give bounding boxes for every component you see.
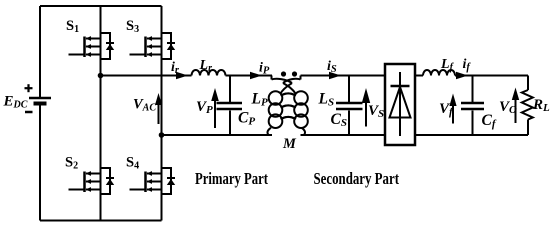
wire bottom rail of bridge — [40, 220, 162, 222]
wire rectifier bottom to load — [415, 134, 528, 136]
wire transformer secondary top to rectifier — [301, 75, 386, 77]
wire Lf to output node — [455, 75, 528, 77]
svg-text:S3: S3 — [126, 18, 139, 35]
svg-text:VS: VS — [368, 103, 384, 120]
wire rectifier to Lf — [415, 75, 423, 77]
transformer secondary winding LS — [283, 76, 308, 136]
voltage arrow VS — [362, 88, 370, 127]
svg-text:EDC: EDC — [3, 94, 28, 111]
svg-text:S1: S1 — [66, 18, 79, 35]
capacitor CP plates — [217, 102, 243, 105]
capacitor CS branch wire upper — [348, 76, 350, 103]
capacitor Cf plates — [461, 102, 484, 105]
resistor RL — [522, 76, 533, 136]
voltage arrow Vf — [449, 94, 456, 124]
capacitor Cf branch wire lower — [472, 111, 474, 136]
capacitor Cf branch wire upper — [472, 76, 474, 103]
wire left leg lower — [39, 105, 41, 221]
capacitor CP branch wire upper — [229, 76, 231, 103]
transistor S4 — [130, 168, 176, 194]
svg-text:LS: LS — [318, 91, 335, 109]
svg-text:S2: S2 — [65, 154, 78, 171]
wire secondary bottom rail — [301, 134, 386, 136]
svg-text:M: M — [282, 136, 297, 152]
transformer polarity dot right — [292, 71, 297, 76]
current arrow ir — [176, 72, 188, 79]
current arrow iS — [329, 72, 341, 79]
svg-text:Secondary Part: Secondary Part — [314, 169, 400, 188]
svg-text:CS: CS — [331, 111, 347, 129]
capacitor CS plates — [336, 102, 363, 105]
wire left leg with DC source gap — [39, 6, 41, 97]
voltage arrow VP — [211, 88, 219, 128]
transistor S1 — [69, 33, 115, 59]
current arrow iP — [250, 72, 262, 79]
transformer polarity dot left — [281, 71, 286, 76]
svg-text:if: if — [463, 57, 472, 73]
inductor Lf — [423, 70, 455, 76]
svg-text:Primary Part: Primary Part — [195, 169, 268, 188]
node bridge output top (junction dot) — [98, 73, 104, 79]
svg-text:S4: S4 — [126, 154, 139, 171]
inductor Lr — [192, 70, 226, 76]
capacitor CP branch wire lower — [229, 111, 231, 136]
svg-text:VO: VO — [499, 99, 517, 116]
wire S1-S2 leg vertical — [100, 6, 102, 221]
transistor S3 — [130, 33, 176, 59]
svg-text:ir: ir — [171, 60, 180, 76]
wire bridge output top to Lr — [101, 75, 192, 77]
svg-text:VP: VP — [196, 99, 213, 116]
label battery plus — [25, 84, 33, 92]
wire primary bottom rail — [162, 134, 273, 136]
svg-text:VAC: VAC — [133, 97, 156, 114]
wire S3-S4 leg vertical — [161, 6, 163, 221]
wire Lr to transformer primary top — [226, 75, 273, 77]
label battery minus — [25, 111, 33, 114]
svg-text:Lf: Lf — [440, 57, 455, 73]
capacitor CS branch wire lower — [348, 111, 350, 136]
voltage arrow VO — [512, 88, 519, 124]
current arrow if — [456, 72, 468, 79]
wire top rail of bridge — [40, 5, 162, 7]
node bridge output bottom (junction dot) — [159, 132, 165, 138]
svg-text:CP: CP — [238, 110, 255, 128]
transformer primary winding LP — [267, 76, 294, 136]
transistor S2 — [69, 168, 115, 194]
svg-text:iP: iP — [259, 61, 270, 77]
svg-text:RL: RL — [532, 97, 550, 114]
battery EDC short plate — [34, 102, 47, 106]
svg-text:Cf: Cf — [482, 112, 497, 130]
svg-text:Lr: Lr — [199, 58, 213, 74]
svg-text:LP: LP — [251, 91, 268, 109]
rectifier box — [385, 64, 415, 145]
voltage arrow VAC — [155, 93, 162, 124]
diode D rectifier — [390, 72, 411, 136]
svg-text:iS: iS — [327, 59, 337, 75]
battery EDC long plate — [29, 97, 51, 100]
